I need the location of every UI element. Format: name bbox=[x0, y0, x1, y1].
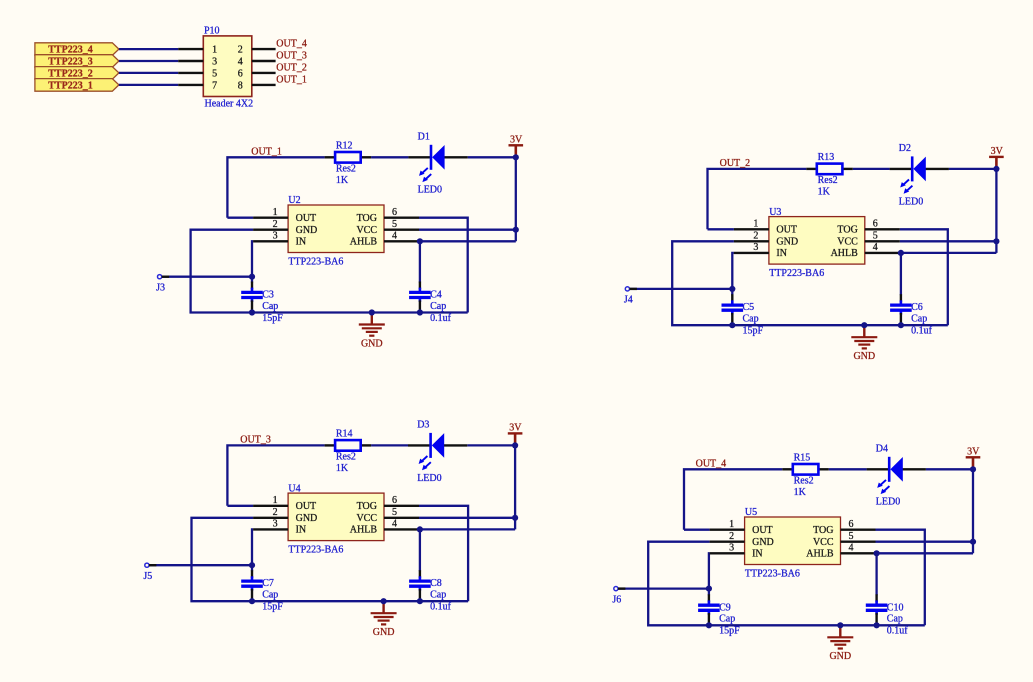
port TTP223_1 bbox=[35, 79, 119, 92]
svg-text:15pF: 15pF bbox=[743, 326, 764, 337]
wire pin5 VCC right to 3V vertical bbox=[876, 541, 974, 543]
svg-text:Cap: Cap bbox=[430, 590, 446, 601]
ground GND bbox=[827, 625, 853, 662]
svg-text:Cap: Cap bbox=[430, 301, 446, 312]
svg-text:0.1uf: 0.1uf bbox=[430, 602, 452, 613]
wire pin2 GND left, down, to ground rail bbox=[648, 542, 840, 626]
svg-text:4: 4 bbox=[392, 231, 397, 242]
svg-text:3V: 3V bbox=[991, 146, 1004, 157]
svg-text:U5: U5 bbox=[745, 507, 757, 518]
svg-text:VCC: VCC bbox=[837, 237, 858, 248]
svg-text:IN: IN bbox=[752, 549, 763, 560]
svg-text:Cap: Cap bbox=[262, 590, 278, 601]
svg-text:4: 4 bbox=[392, 519, 397, 530]
svg-text:GND: GND bbox=[829, 651, 851, 662]
wire to pin 1 OUT bbox=[227, 217, 253, 219]
svg-text:3: 3 bbox=[273, 231, 278, 242]
wire pin6 TOG right and down to rail bbox=[900, 229, 948, 325]
wire pin6 TOG right and down to rail bbox=[876, 530, 925, 626]
svg-text:4: 4 bbox=[873, 242, 878, 253]
wire J6 to junction bbox=[616, 587, 709, 589]
wire D4 to 3V node bbox=[926, 468, 973, 470]
wire pin4 AHLB right to 3V vertical bbox=[901, 252, 997, 254]
svg-text:Cap: Cap bbox=[911, 314, 927, 325]
wire OUT_2 net: corner from pin1 up and right to R13 bbox=[708, 169, 807, 229]
svg-text:GND: GND bbox=[776, 237, 798, 248]
power 3V bbox=[508, 423, 523, 446]
wire pin4 AHLB right to 3V vertical bbox=[877, 552, 973, 554]
resistor R13 Res2 1K bbox=[806, 152, 853, 197]
svg-text:TTP223-BA6: TTP223-BA6 bbox=[288, 544, 343, 555]
capacitor C10 0.1uf bbox=[866, 594, 909, 636]
svg-text:3: 3 bbox=[273, 519, 278, 530]
junction 3V node bbox=[512, 442, 518, 448]
wire pin4 down to C6 bbox=[900, 253, 902, 295]
junction 3V node bbox=[970, 466, 976, 472]
port TTP223_2 bbox=[35, 67, 119, 80]
svg-text:OUT: OUT bbox=[752, 525, 773, 536]
svg-text:OUT: OUT bbox=[296, 213, 317, 224]
svg-text:OUT_2: OUT_2 bbox=[720, 158, 751, 169]
connector J4 bbox=[624, 287, 637, 306]
resistor R15 Res2 1K bbox=[782, 453, 829, 498]
wire 3V vertical down to VCC/AHLB bbox=[972, 469, 974, 553]
svg-text:Cap: Cap bbox=[743, 314, 759, 325]
wire TTP223_2 to P10 pin 5 bbox=[119, 72, 178, 74]
junction VCC to 3V bbox=[513, 227, 519, 233]
connector J6 bbox=[612, 587, 625, 606]
wire J5 to junction bbox=[147, 564, 252, 566]
junction 3V node bbox=[513, 154, 519, 160]
svg-text:15pF: 15pF bbox=[262, 313, 283, 324]
svg-text:OUT_1: OUT_1 bbox=[251, 147, 282, 158]
wire pin3 IN down to J3 node bbox=[252, 241, 253, 276]
junction J3/IN/C3 bbox=[249, 274, 255, 280]
svg-text:5: 5 bbox=[392, 507, 397, 518]
svg-text:D2: D2 bbox=[899, 143, 911, 154]
svg-text:C8: C8 bbox=[430, 578, 442, 589]
svg-text:2: 2 bbox=[273, 507, 278, 518]
capacitor C9 15pF bbox=[698, 594, 740, 636]
svg-text:P10: P10 bbox=[204, 25, 220, 36]
junction C5 to rail bbox=[729, 322, 735, 328]
svg-text:7: 7 bbox=[212, 80, 217, 91]
junction VCC to 3V bbox=[993, 238, 999, 244]
wire pin6 TOG right and down to rail bbox=[419, 506, 468, 601]
wire pin4 down to C8 bbox=[419, 529, 421, 571]
svg-text:LED0: LED0 bbox=[417, 473, 441, 484]
svg-text:D1: D1 bbox=[418, 131, 430, 142]
svg-text:VCC: VCC bbox=[813, 537, 834, 548]
wire ground rail right section bbox=[840, 624, 925, 626]
svg-text:LED0: LED0 bbox=[418, 185, 442, 196]
resistor R14 Res2 1K bbox=[325, 429, 372, 474]
svg-text:OUT_4: OUT_4 bbox=[276, 39, 307, 50]
wire J3 node to C3 bbox=[251, 277, 253, 283]
svg-text:TOG: TOG bbox=[837, 225, 857, 236]
wire to pin 1 OUT bbox=[684, 529, 710, 531]
junction rail to ground bbox=[381, 598, 387, 604]
svg-text:OUT_3: OUT_3 bbox=[240, 435, 271, 446]
svg-text:1: 1 bbox=[273, 207, 278, 218]
junction rail to ground bbox=[369, 309, 375, 315]
svg-text:C6: C6 bbox=[911, 302, 923, 313]
svg-text:3: 3 bbox=[729, 543, 734, 554]
svg-text:J6: J6 bbox=[612, 594, 621, 605]
svg-text:Res2: Res2 bbox=[794, 476, 814, 487]
svg-text:2: 2 bbox=[238, 45, 243, 56]
svg-text:TOG: TOG bbox=[813, 525, 833, 536]
junction C4 to rail bbox=[417, 309, 423, 315]
svg-text:Cap: Cap bbox=[262, 301, 278, 312]
port TTP223_3 bbox=[35, 55, 119, 68]
junction C9 to rail bbox=[706, 622, 712, 628]
svg-text:Cap: Cap bbox=[887, 614, 903, 625]
svg-text:GND: GND bbox=[361, 338, 383, 349]
svg-text:GND: GND bbox=[296, 513, 318, 524]
svg-text:1K: 1K bbox=[336, 175, 349, 186]
junction 3V node bbox=[993, 166, 999, 172]
svg-text:1K: 1K bbox=[818, 187, 831, 198]
svg-text:TTP223_4: TTP223_4 bbox=[48, 45, 92, 56]
wire pin2 GND left, down, to ground rail bbox=[191, 230, 372, 313]
wire pin4 AHLB right to 3V vertical bbox=[420, 240, 516, 242]
IC U4 TTP223-BA6 bbox=[253, 483, 419, 555]
wire R15 to D4 bbox=[829, 468, 867, 470]
junction C8 to rail bbox=[417, 598, 423, 604]
power 3V bbox=[989, 146, 1004, 169]
ground GND bbox=[359, 313, 385, 350]
wire 3V vertical down to VCC/AHLB bbox=[515, 157, 517, 241]
svg-text:J3: J3 bbox=[156, 283, 165, 294]
wire R14 to D3 bbox=[371, 444, 408, 446]
svg-text:U3: U3 bbox=[769, 207, 781, 218]
svg-text:C10: C10 bbox=[887, 602, 904, 613]
svg-text:C4: C4 bbox=[430, 290, 442, 301]
svg-text:TTP223_2: TTP223_2 bbox=[48, 68, 92, 79]
svg-text:TOG: TOG bbox=[357, 501, 377, 512]
svg-text:Res2: Res2 bbox=[336, 452, 356, 463]
wire OUT_3 net: corner from pin1 up and right to R14 bbox=[227, 445, 324, 505]
wire J4 to junction bbox=[627, 288, 732, 290]
svg-text:LED0: LED0 bbox=[899, 196, 923, 207]
wire ground rail right section bbox=[372, 311, 468, 313]
svg-text:C3: C3 bbox=[262, 290, 274, 301]
wire D1 to 3V node bbox=[468, 156, 516, 158]
svg-text:TTP223-BA6: TTP223-BA6 bbox=[288, 256, 343, 267]
svg-text:R15: R15 bbox=[794, 453, 811, 464]
svg-text:C7: C7 bbox=[262, 578, 274, 589]
junction C7 to rail bbox=[249, 598, 255, 604]
svg-text:IN: IN bbox=[776, 248, 787, 259]
junction AHLB/C10 bbox=[874, 550, 880, 556]
svg-text:GND: GND bbox=[853, 351, 875, 362]
svg-text:0.1uf: 0.1uf bbox=[430, 313, 452, 324]
power 3V bbox=[509, 135, 524, 158]
wire pin3 IN down to J6 node bbox=[708, 553, 711, 588]
svg-text:AHLB: AHLB bbox=[831, 248, 859, 259]
junction J5/IN/C7 bbox=[249, 562, 255, 568]
LED D4 LED0 bbox=[867, 443, 926, 507]
wire J3 to junction bbox=[160, 276, 252, 278]
svg-text:OUT_4: OUT_4 bbox=[696, 459, 727, 470]
svg-text:R13: R13 bbox=[818, 152, 835, 163]
svg-text:6: 6 bbox=[849, 519, 854, 530]
wire D2 to 3V node bbox=[949, 168, 997, 170]
wire R12 to D1 bbox=[371, 156, 408, 158]
junction VCC to 3V bbox=[970, 539, 976, 545]
wire pin5 VCC right to 3V vertical bbox=[900, 240, 997, 242]
svg-text:C9: C9 bbox=[719, 602, 731, 613]
svg-text:Res2: Res2 bbox=[336, 164, 356, 175]
capacitor C5 15pF bbox=[722, 294, 764, 336]
junction AHLB/C6 bbox=[898, 250, 904, 256]
junction C3 to rail bbox=[249, 309, 255, 315]
svg-text:J4: J4 bbox=[624, 295, 633, 306]
svg-text:OUT_3: OUT_3 bbox=[276, 51, 307, 62]
svg-text:5: 5 bbox=[849, 531, 854, 542]
wire J4 node to C5 bbox=[731, 289, 733, 295]
svg-text:TOG: TOG bbox=[357, 213, 377, 224]
svg-text:15pF: 15pF bbox=[262, 602, 283, 613]
svg-text:VCC: VCC bbox=[356, 225, 377, 236]
junction rail to ground bbox=[861, 322, 867, 328]
LED D2 LED0 bbox=[890, 143, 949, 207]
svg-text:6: 6 bbox=[238, 68, 243, 79]
junction rail to ground bbox=[837, 622, 843, 628]
svg-text:2: 2 bbox=[729, 531, 734, 542]
junction AHLB/C8 bbox=[417, 526, 423, 532]
wire OUT_1 net: corner from pin1 up and right to R12 bbox=[227, 157, 324, 217]
wire R13 to D2 bbox=[853, 168, 890, 170]
svg-text:6: 6 bbox=[392, 207, 397, 218]
svg-text:1: 1 bbox=[273, 495, 278, 506]
wire pin4 down to C10 bbox=[875, 553, 877, 595]
capacitor C8 0.1uf bbox=[409, 570, 452, 612]
wire J6 node to C9 bbox=[708, 589, 710, 596]
wire pin4 AHLB right to 3V vertical bbox=[420, 528, 515, 530]
junction J4/IN/C5 bbox=[729, 286, 735, 292]
resistor R12 Res2 1K bbox=[325, 141, 372, 186]
svg-text:OUT_2: OUT_2 bbox=[276, 62, 307, 73]
svg-text:Cap: Cap bbox=[719, 614, 735, 625]
svg-text:1K: 1K bbox=[794, 487, 807, 498]
svg-text:5: 5 bbox=[392, 219, 397, 230]
svg-text:1: 1 bbox=[753, 219, 758, 230]
svg-text:3: 3 bbox=[212, 56, 217, 67]
wire pin5 VCC right to 3V vertical bbox=[419, 229, 516, 231]
LED D3 LED0 bbox=[408, 419, 467, 483]
svg-text:5: 5 bbox=[212, 68, 217, 79]
wire pin5 VCC right to 3V vertical bbox=[419, 517, 515, 519]
svg-text:D3: D3 bbox=[417, 419, 429, 430]
LED D1 LED0 bbox=[408, 131, 467, 195]
svg-text:OUT_1: OUT_1 bbox=[276, 74, 307, 85]
wire OUT_4 net: corner from pin1 up and right to R15 bbox=[684, 469, 782, 529]
svg-text:IN: IN bbox=[296, 525, 307, 536]
power 3V bbox=[966, 447, 981, 470]
capacitor C7 15pF bbox=[241, 570, 283, 612]
svg-text:TTP223-BA6: TTP223-BA6 bbox=[769, 268, 824, 279]
svg-text:1K: 1K bbox=[336, 463, 349, 474]
svg-text:5: 5 bbox=[873, 231, 878, 242]
capacitor C4 0.1uf bbox=[409, 282, 452, 324]
connector P10 Header 4X2 bbox=[178, 25, 275, 109]
svg-text:15pF: 15pF bbox=[719, 626, 740, 637]
svg-text:3V: 3V bbox=[967, 447, 980, 458]
svg-text:GND: GND bbox=[752, 537, 774, 548]
svg-text:Header 4X2: Header 4X2 bbox=[205, 99, 254, 110]
svg-text:3V: 3V bbox=[510, 135, 523, 146]
svg-text:IN: IN bbox=[296, 237, 307, 248]
svg-text:R12: R12 bbox=[336, 141, 353, 152]
svg-text:Res2: Res2 bbox=[818, 175, 838, 186]
wire pin2 GND left, down, to ground rail bbox=[672, 241, 864, 325]
svg-text:TTP223_3: TTP223_3 bbox=[48, 56, 92, 67]
junction C10 to rail bbox=[874, 622, 880, 628]
connector J5 bbox=[143, 563, 156, 582]
svg-text:AHLB: AHLB bbox=[350, 237, 378, 248]
svg-text:U4: U4 bbox=[288, 483, 300, 494]
svg-text:6: 6 bbox=[392, 495, 397, 506]
svg-text:AHLB: AHLB bbox=[350, 525, 378, 536]
wire pin6 TOG right and down to rail bbox=[419, 218, 468, 313]
svg-text:R14: R14 bbox=[336, 429, 353, 440]
wire TTP223_4 to P10 pin 1 bbox=[119, 48, 178, 50]
wire ground rail right section bbox=[864, 324, 948, 326]
svg-text:AHLB: AHLB bbox=[806, 549, 834, 560]
junction AHLB/C4 bbox=[417, 238, 423, 244]
capacitor C6 0.1uf bbox=[890, 294, 933, 336]
svg-text:C5: C5 bbox=[743, 302, 755, 313]
svg-text:OUT: OUT bbox=[296, 501, 317, 512]
svg-text:0.1uf: 0.1uf bbox=[887, 626, 909, 637]
wire 3V vertical down to VCC/AHLB bbox=[995, 169, 997, 253]
svg-text:8: 8 bbox=[238, 80, 243, 91]
wire pin4 down to C4 bbox=[419, 241, 421, 282]
capacitor C3 15pF bbox=[241, 282, 283, 324]
svg-text:4: 4 bbox=[849, 543, 854, 554]
IC U2 TTP223-BA6 bbox=[253, 195, 419, 267]
wire pin2 GND left, down, to ground rail bbox=[192, 518, 384, 601]
svg-text:3: 3 bbox=[753, 242, 758, 253]
svg-text:U2: U2 bbox=[288, 195, 300, 206]
svg-text:D4: D4 bbox=[876, 443, 888, 454]
svg-text:GND: GND bbox=[296, 225, 318, 236]
svg-text:VCC: VCC bbox=[356, 513, 377, 524]
junction J6/IN/C9 bbox=[706, 586, 712, 592]
port TTP223_4 bbox=[35, 43, 119, 56]
svg-text:TTP223-BA6: TTP223-BA6 bbox=[745, 568, 800, 579]
wire J5 node to C7 bbox=[251, 565, 253, 571]
svg-text:LED0: LED0 bbox=[876, 497, 900, 508]
wire 3V vertical down to VCC/AHLB bbox=[514, 445, 516, 529]
svg-text:OUT: OUT bbox=[776, 225, 797, 236]
junction C6 to rail bbox=[898, 322, 904, 328]
svg-text:3V: 3V bbox=[509, 423, 522, 434]
wire pin3 IN down to J4 node bbox=[732, 253, 734, 289]
wire ground rail right section bbox=[384, 600, 469, 602]
wire TTP223_3 to P10 pin 3 bbox=[119, 60, 178, 62]
svg-text:2: 2 bbox=[753, 231, 758, 242]
wire TTP223_1 to P10 pin 7 bbox=[119, 84, 178, 86]
ground GND bbox=[371, 601, 397, 638]
junction VCC to 3V bbox=[512, 515, 518, 521]
connector J3 bbox=[156, 275, 169, 294]
wire to pin 1 OUT bbox=[708, 228, 734, 230]
ground GND bbox=[851, 325, 877, 362]
IC U3 TTP223-BA6 bbox=[734, 207, 900, 279]
svg-text:J5: J5 bbox=[143, 571, 152, 582]
svg-text:0.1uf: 0.1uf bbox=[911, 326, 933, 337]
svg-text:4: 4 bbox=[238, 56, 243, 67]
wire D3 to 3V node bbox=[467, 444, 515, 446]
svg-text:GND: GND bbox=[373, 627, 395, 638]
svg-text:TTP223_1: TTP223_1 bbox=[48, 80, 92, 91]
IC U5 TTP223-BA6 bbox=[710, 507, 876, 579]
wire pin3 IN down to J5 node bbox=[252, 529, 253, 565]
svg-text:1: 1 bbox=[212, 45, 217, 56]
svg-text:1: 1 bbox=[729, 519, 734, 530]
wire to pin 1 OUT bbox=[227, 505, 253, 507]
svg-text:6: 6 bbox=[873, 219, 878, 230]
svg-text:2: 2 bbox=[273, 219, 278, 230]
